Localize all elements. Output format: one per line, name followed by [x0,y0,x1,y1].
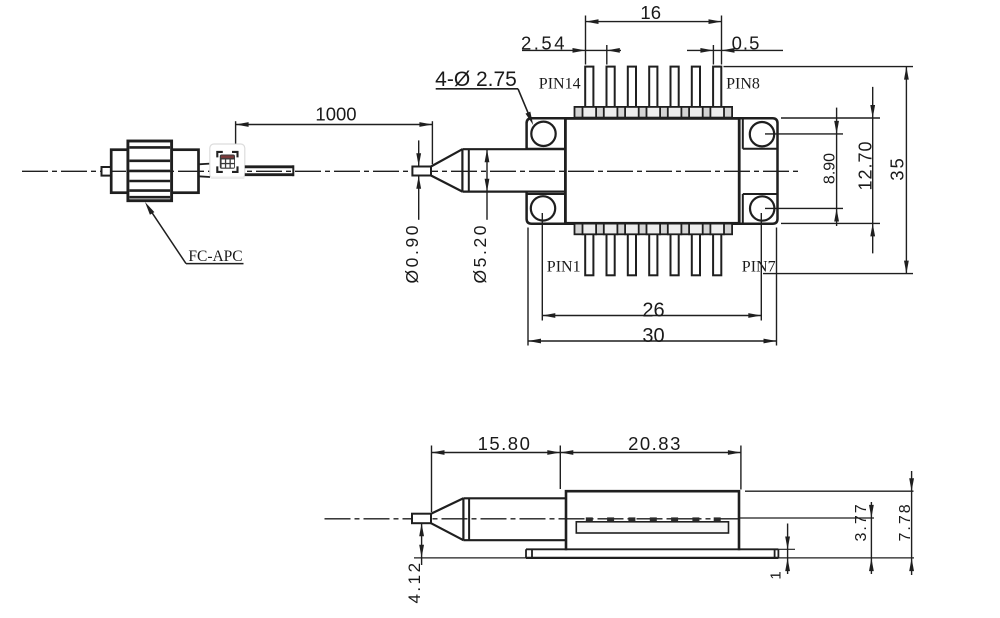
FC-APC leader line [148,206,187,264]
bottom pins PIN1-PIN7 [585,224,593,276]
svg-text:7.78: 7.78 [897,502,914,541]
svg-text:4.12: 4.12 [405,560,424,603]
bottom pin feedthrough blocks [575,224,583,235]
ext line left of 1000 [235,121,237,143]
cone big end side view [462,498,464,540]
ext line 35 top [724,66,914,68]
underline 4-dia2.75 [436,88,518,90]
svg-text:PIN1: PIN1 [547,259,581,276]
dimension 15.80 [432,452,561,454]
svg-text:12.70: 12.70 [856,140,876,190]
boot lower line [199,175,211,178]
dimension 26 [542,315,761,317]
ext line 1 top [778,548,795,550]
lens barrel joint side view [468,498,470,540]
ext line 8.90 top [765,133,843,135]
ext line 16 right [721,16,723,65]
dimension 4.12 [421,523,423,565]
leader 4-dia2.75 [518,89,530,117]
ext line 15.80 left [431,446,433,513]
pin seating ext line to 3.77 [739,517,874,519]
dimension 7.78 [911,471,913,575]
top pin feedthrough blocks [575,107,583,118]
ext line 12.70 bottom [781,222,880,224]
dimension dia 0.90 [418,140,420,166]
ext line 0.5 left [712,45,714,65]
ext line 20.83 right [740,446,742,490]
fiber jacket lower line [245,173,293,176]
mounting hole top-left [531,122,555,146]
svg-text:20.83: 20.83 [628,433,682,454]
top pins PIN14-PIN8 [585,67,593,118]
ext line 26 right [760,213,762,321]
fiber jacket upper line [245,165,293,168]
svg-text:3.77: 3.77 [853,502,870,541]
butterfly flange outline [527,118,778,224]
snout cylinder top edge [462,148,565,150]
dimension 8.90 [836,108,838,226]
plate left lip outer [525,549,527,558]
dimension 20.83 [560,452,741,454]
dimension 2.54 [522,49,621,51]
dimension 12.70 [872,87,874,254]
ext line 35 bottom [763,273,913,275]
ceramic feedthrough side view [576,522,728,533]
snout top edge side view [463,497,566,499]
strain relief placeholder box [210,144,245,178]
svg-text:15.80: 15.80 [478,433,532,454]
FC-APC leader arrow [145,202,154,215]
nose cone taper side view [431,498,463,540]
lens barrel joint line [468,149,470,191]
right upper ear left edge [742,118,744,149]
svg-text:35: 35 [887,156,908,181]
svg-text:30: 30 [642,325,664,347]
FC connector body [111,150,198,193]
boot upper line [199,163,211,166]
ext line 12.70 top [781,117,880,119]
svg-text:PIN8: PIN8 [726,76,760,93]
svg-text:FC-APC: FC-APC [188,248,242,265]
right lower ear left edge [742,194,744,224]
package body side view [566,491,739,550]
svg-text:Ø0.90: Ø0.90 [402,223,422,284]
dimension 1 [787,524,789,575]
dimension dia 5.20 [486,149,488,220]
knurl ridge lines [129,146,170,149]
svg-text:4-Ø 2.75: 4-Ø 2.75 [435,68,517,91]
svg-text:26: 26 [642,300,664,322]
leader arrow 4-dia2.75 [526,112,534,125]
ext line shared 15.80/20.83 [559,446,561,490]
mounting hole bottom-right [750,196,774,220]
plate right lip outer [777,549,779,558]
pin ends side view [586,517,593,521]
ext line 2.54 right [606,45,608,65]
ext line 30 right [776,228,778,346]
cone big end edge [461,149,463,191]
mounting hole bottom-left [531,196,555,220]
plate right lip inner [774,549,776,558]
wire centerline top view [22,170,799,172]
butterfly package body [565,118,739,223]
svg-text:16: 16 [640,2,661,23]
snout cylinder bottom edge [462,191,565,193]
dimension 16 [586,21,722,23]
mounting hole top-right [750,122,774,146]
ext line 8.90 bottom [765,207,843,209]
base plate bottom + ext line [414,557,914,559]
svg-text:8.90: 8.90 [822,153,839,184]
ext line right of 1000 [431,121,433,164]
dimension 30 [528,340,777,342]
plate left lip inner [531,549,533,558]
svg-text:1: 1 [768,571,785,579]
ext line 26 left [541,213,543,321]
left upper ear bottom edge [527,148,566,150]
snout bottom edge side view [463,539,566,541]
ext line 30 left [527,228,529,346]
FC connector ferrule tip [102,167,112,176]
right lower ear top edge [743,193,778,195]
svg-text:2.54: 2.54 [521,33,567,54]
dimension 1000 [236,124,433,126]
fiber ferrule tip side view [412,514,431,524]
svg-text:0.5: 0.5 [732,33,761,54]
dimension 0.5 [687,49,783,51]
svg-text:PIN14: PIN14 [539,76,581,93]
ext line 16 left [585,16,587,65]
fiber ferrule tip at nose [412,167,431,176]
svg-text:Ø5.20: Ø5.20 [470,223,490,284]
ext line package top to 7.78 [745,490,914,492]
svg-text:1000: 1000 [315,104,356,125]
right upper ear bottom edge [743,148,778,150]
dimension 3.77 [870,502,872,574]
nose cone taper [431,149,462,191]
placeholder icon corner brackets [217,152,223,158]
dimension 35 [905,67,907,274]
base plate top edge [526,548,778,550]
fiber jacket end cap [292,165,294,176]
wire centerline side view [325,518,740,520]
FC-APC underline [186,263,244,265]
FC connector knurled nut [128,141,172,201]
placeholder icon grid [220,155,235,169]
left lower ear top edge [527,193,566,195]
base plate bottom edge [526,557,778,559]
